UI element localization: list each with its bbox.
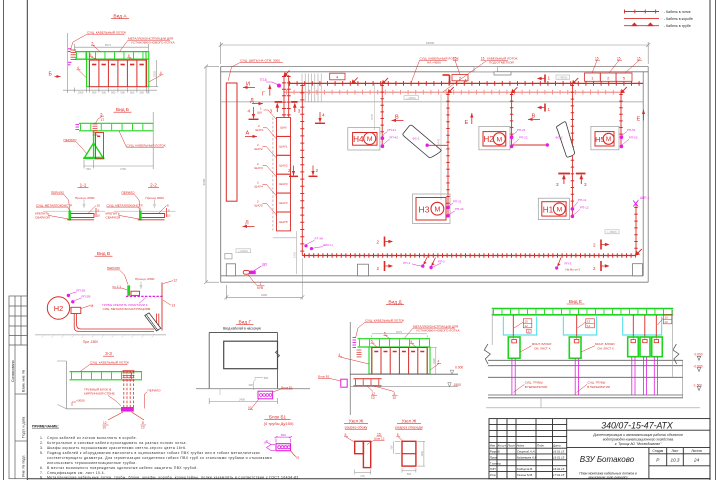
svg-text:ШАУ1: ШАУ1 — [279, 144, 288, 148]
15 flags — [453, 56, 641, 60]
flags 4 — [77, 66, 162, 75]
svg-text:3: 3 — [270, 109, 273, 114]
svg-text:900: 900 — [130, 91, 135, 95]
svg-text:ПЕРИЛО: ПЕРИЛО — [64, 138, 78, 142]
svg-text:ПЕРИЛО: ПЕРИЛО — [107, 266, 121, 270]
magenta taps at motors — [381, 135, 624, 218]
svg-text:М: М — [557, 207, 563, 214]
svg-text:5: 5 — [101, 112, 103, 116]
labels mont bloki — [532, 342, 615, 351]
svg-text:4: 4 — [322, 113, 325, 118]
section cut 3 top-left — [275, 101, 298, 103]
pipe labels — [525, 381, 610, 389]
svg-text:4: 4 — [77, 66, 79, 70]
wall top outer — [221, 66, 649, 68]
svg-text:Проход -0500: Проход -0500 — [75, 196, 95, 200]
svg-text:+0000: +0000 — [76, 398, 85, 402]
svg-text:16.01.15: 16.01.15 — [553, 450, 565, 454]
cyan niche 1 — [503, 317, 536, 336]
svg-text:СУЩ. МЕТАЛЛОКОНСТР.: СУЩ. МЕТАЛЛОКОНСТР. — [36, 203, 73, 207]
right dim — [167, 204, 171, 218]
svg-text:РП-31: РП-31 — [453, 200, 462, 204]
svg-text:ШАУ2: ШАУ2 — [255, 147, 264, 151]
motor H3 — [413, 194, 451, 224]
svg-text:ШАУ1: ШАУ1 — [256, 128, 265, 132]
-1500 level — [350, 386, 458, 388]
wall outline with break — [209, 333, 279, 389]
lower small tray — [354, 379, 382, 386]
svg-text:- Кабель в лотке: - Кабель в лотке — [664, 10, 691, 14]
svg-text:Блок Б1: Блок Б1 — [281, 385, 293, 389]
svg-text:4: 4 — [438, 360, 440, 364]
green pump box 1 — [508, 337, 520, 358]
svg-text:Т.контр.: Т.контр. — [490, 461, 502, 465]
pipe duct down from pump — [74, 314, 159, 332]
existing panel (tall red rect) — [226, 83, 237, 201]
cable hashes at post — [93, 124, 98, 135]
staircase treads — [302, 74, 321, 102]
15/12 flags group2 — [587, 320, 591, 329]
svg-text:ПРИМЕЧАНИЕ:: ПРИМЕЧАНИЕ: — [32, 425, 59, 429]
pilaster bottom left — [226, 264, 235, 276]
svg-text:ШАУ-Н: ШАУ-Н — [323, 243, 333, 247]
label existing tray +4500 — [411, 57, 459, 83]
svg-text:Г: Г — [262, 92, 265, 98]
red hash at tray crossing — [123, 371, 135, 381]
svg-text:РП-2: РП-2 — [438, 260, 445, 264]
svg-text:900: 900 — [92, 91, 97, 95]
svg-text:Спуск кабелей из лотков выполн: Спуск кабелей из лотков выполнять в коро… — [47, 436, 137, 440]
green ladder tray — [70, 372, 143, 380]
green ladder tray — [358, 339, 431, 347]
motor H1 — [538, 198, 569, 219]
svg-text:ТП-8: ТП-8 — [260, 78, 267, 82]
small dim — [254, 378, 264, 391]
bottom cable tray — [302, 255, 636, 257]
svg-text:2400: 2400 — [239, 397, 245, 401]
svg-text:2: 2 — [316, 168, 319, 173]
svg-text:РП-2В: РП-2В — [82, 294, 91, 298]
svg-text:24: 24 — [693, 458, 700, 463]
arrow 2 down right — [309, 166, 319, 177]
block B1 magenta at wall — [341, 379, 347, 387]
svg-text:3-3: 3-3 — [105, 351, 112, 356]
svg-text:15: 15 — [481, 56, 485, 60]
svg-text:1.: 1. — [40, 436, 44, 440]
extension lines — [63, 33, 158, 93]
legend cable in box symbol — [624, 18, 659, 20]
svg-text:водопроводно-канализационного: водопроводно-канализационного хозяйства — [603, 438, 674, 442]
wall bottom outer — [221, 281, 649, 283]
elevation labels gray boxes — [236, 75, 619, 253]
svg-text:2: 2 — [593, 243, 596, 248]
AVR-1 — [633, 196, 649, 207]
svg-text:10: 10 — [167, 214, 171, 218]
flags 5 — [90, 41, 130, 58]
stage table — [652, 449, 702, 453]
svg-text:Контрольные и силовые кабели п: Контрольные и силовые кабели прокладыват… — [47, 441, 187, 445]
svg-text:В ПЕРЕКРЫТИИ: В ПЕРЕКРЫТИИ — [525, 385, 548, 389]
green ladder tray — [492, 309, 674, 315]
svg-text:М: М — [434, 207, 440, 214]
leaders to fraction labels — [367, 386, 394, 392]
svg-text:Металлические кабельные лотки,: Металлические кабельные лотки, трубы, бл… — [47, 476, 300, 480]
RP-1 RP-2 taps — [403, 257, 445, 270]
riser to H3 — [447, 92, 449, 216]
break marks — [484, 344, 490, 364]
svg-text:Взам. инв. №: Взам. инв. № — [21, 370, 25, 392]
svg-text:КУВ: КУВ — [257, 286, 263, 290]
cabinet row — [372, 348, 427, 375]
svg-text:5: 5 — [371, 339, 373, 343]
legend cable in tray symbol — [624, 11, 659, 13]
svg-text:16.01.15: 16.01.15 — [553, 455, 565, 459]
svg-text:соответствующего диаметра. Для: соответствующего диаметра. Для герметиза… — [47, 456, 272, 460]
svg-text:РП-22: РП-22 — [519, 136, 528, 140]
svg-text:Проход 0000: Проход 0000 — [146, 196, 165, 200]
svg-text:Е: Е — [465, 120, 469, 126]
svg-text:(4 трубы Ду150): (4 трубы Ду150) — [264, 421, 294, 426]
green ladder tray — [79, 123, 153, 131]
svg-text:Д: Д — [250, 98, 254, 104]
svg-text:(-0200): (-0200) — [239, 249, 248, 253]
svg-text:5: 5 — [128, 54, 130, 58]
elevation lines — [488, 360, 683, 398]
red drop lines — [513, 315, 656, 339]
svg-text:(-1500): (-1500) — [607, 230, 616, 234]
svg-text:Проход -0500: Проход -0500 — [135, 277, 155, 281]
svg-text:700: 700 — [390, 445, 394, 450]
svg-text:РП-52: РП-52 — [629, 136, 638, 140]
cabinet column dashed line — [272, 118, 274, 232]
block B1 with 4 pipes — [258, 391, 273, 399]
svg-text:В местах возможного повреждени: В местах возможного повреждения одиночны… — [47, 466, 198, 470]
svg-text:РП-12: РП-12 — [580, 206, 589, 210]
svg-text:ШАУ2: ШАУ2 — [279, 163, 288, 167]
magenta dashed pipe run — [126, 295, 164, 297]
svg-text:М: М — [496, 137, 502, 144]
motor H4 — [348, 128, 380, 150]
svg-text:900: 900 — [111, 91, 116, 95]
red box on stand — [96, 133, 104, 159]
section cut 2 left pair — [384, 237, 386, 272]
wall right inner — [642, 72, 644, 276]
svg-text:УСТАНОВКИ НОВОГО ЛОТКА: УСТАНОВКИ НОВОГО ЛОТКА — [416, 329, 460, 333]
svg-text:РП-21: РП-21 — [517, 128, 526, 132]
svg-text:1100: 1100 — [420, 450, 424, 456]
svg-text:Н2: Н2 — [483, 135, 494, 144]
svg-text:Стадия: Стадия — [652, 449, 663, 453]
green post left — [369, 347, 372, 374]
svg-text:4: 4 — [248, 109, 251, 114]
dims — [394, 441, 425, 472]
tray section tag 2 — [452, 75, 468, 81]
FS-1 diagonal bar — [403, 125, 448, 158]
dim below plan — [224, 258, 304, 300]
arrow 2 down left — [288, 166, 298, 177]
right dim — [429, 348, 437, 375]
svg-text:2: 2 — [593, 266, 596, 271]
svg-text:3460: 3460 — [261, 293, 268, 297]
svg-text:3: 3 — [556, 182, 559, 187]
svg-text:Пров.: Пров. — [490, 455, 498, 459]
riser to H4 — [381, 83, 383, 146]
svg-text:СУЩ. МЕТАЛЛОКОНСТРУКЦИЯМ: СУЩ. МЕТАЛЛОКОНСТРУКЦИЯМ — [103, 307, 151, 311]
section cut 1 upper — [544, 75, 546, 112]
opening rect — [224, 341, 278, 369]
view arrow V right — [528, 114, 540, 122]
svg-text:Н4: Н4 — [353, 135, 364, 144]
svg-text:0.000: 0.000 — [695, 352, 703, 356]
svg-text:-1500: -1500 — [453, 383, 462, 387]
svg-text:- Кабель в трубе: - Кабель в трубе — [664, 24, 691, 28]
cabinet leader labels — [255, 106, 265, 207]
svg-text:КИРПИЧНОЙ СТЕНЕ: КИРПИЧНОЙ СТЕНЕ — [84, 392, 115, 396]
svg-text:5: 5 — [397, 433, 399, 437]
svg-text:Подп.: Подп. — [537, 444, 545, 448]
riser to H1 — [571, 83, 573, 216]
svg-text:РП-11: РП-11 — [578, 198, 587, 202]
svg-text:СУЩ. КАБЕЛЬНЫЙ ЛОТОК: СУЩ. КАБЕЛЬНЫЙ ЛОТОК — [90, 361, 129, 365]
svg-text:15: 15 — [665, 316, 669, 320]
svg-text:18000: 18000 — [426, 41, 435, 45]
svg-text:1: 1 — [548, 107, 551, 112]
svg-text:5: 5 — [92, 41, 94, 45]
svg-text:ПОД ОТМЕТКОЙ: ПОД ОТМЕТКОЙ — [489, 60, 514, 64]
magenta dims — [267, 436, 293, 450]
magenta entry marks — [68, 49, 72, 65]
svg-text:(-4500): (-4500) — [407, 96, 416, 100]
right dim — [97, 204, 101, 218]
door light panel — [243, 262, 267, 290]
15/12 flags group1 — [525, 320, 529, 329]
svg-text:При -1500: При -1500 — [83, 340, 98, 344]
magenta entry marks — [353, 338, 357, 348]
floor line — [43, 210, 105, 212]
cabinet handles — [374, 351, 424, 353]
svg-text:РП-32: РП-32 — [455, 207, 464, 211]
green stand post — [93, 131, 95, 158]
svg-text:Кол.уч: Кол.уч — [498, 444, 507, 448]
svg-text:2: 2 — [377, 240, 380, 245]
svg-text:разрез спереди: разрез спереди — [395, 426, 422, 430]
svg-text:Утв.: Утв. — [490, 473, 497, 477]
right green post — [146, 52, 149, 87]
green ladder tray — [75, 52, 149, 60]
svg-text:ФС-1: ФС-1 — [413, 136, 420, 140]
svg-text:РП-51: РП-51 — [627, 128, 636, 132]
svg-text:ПЕРИЛО: ПЕРИЛО — [51, 190, 65, 194]
svg-text:На Мо-сн 3: На Мо-сн 3 — [566, 268, 581, 272]
svg-text:500: 500 — [407, 472, 412, 476]
floor hatch — [35, 334, 166, 336]
svg-text:Е: Е — [637, 117, 641, 123]
svg-text:СМ. ЛИСТ X: СМ. ЛИСТ X — [534, 347, 551, 351]
svg-text:ВЗУ Ботаково: ВЗУ Ботаково — [580, 455, 635, 464]
long left riser — [301, 83, 303, 255]
svg-text:1300: 1300 — [78, 91, 84, 95]
left margin stamp boxes — [9, 296, 27, 479]
label metal structures — [120, 36, 176, 51]
arrow 4 left — [248, 107, 259, 119]
magenta wall block — [121, 407, 134, 412]
bottom dim — [355, 470, 371, 475]
svg-text:900: 900 — [102, 91, 107, 95]
right elevation labels — [693, 352, 703, 387]
legend top right — [624, 10, 693, 28]
svg-text:12: 12 — [665, 320, 669, 324]
svg-text:СМ. ЛИСТ X: СМ. ЛИСТ X — [597, 347, 614, 351]
tray section tags 1 2 5 — [585, 73, 601, 81]
svg-text:0.000: 0.000 — [455, 366, 463, 370]
left dimension line — [204, 65, 219, 285]
svg-text:2325: 2325 — [432, 358, 436, 364]
svg-text:ШАУ3: ШАУ3 — [279, 182, 288, 186]
svg-text:1: 1 — [548, 76, 551, 81]
wall riser red line — [161, 283, 163, 331]
wall left — [220, 67, 222, 283]
riser to H5 — [620, 92, 622, 146]
svg-text:5: 5 — [411, 340, 413, 344]
view arrow V left — [392, 115, 404, 123]
svg-text:- Кабель в коробе: - Кабель в коробе — [664, 17, 693, 21]
svg-text:3: 3 — [298, 109, 301, 114]
green stand triangle — [85, 143, 104, 158]
cable entry hashes — [71, 50, 77, 60]
svg-text:(-4500): (-4500) — [558, 75, 567, 79]
svg-text:МОНТ. БЛОКИ: МОНТ. БЛОКИ — [532, 342, 552, 346]
wall niche left — [225, 254, 232, 259]
svg-text:В ПЕРЕКРЫТИИ: В ПЕРЕКРЫТИИ — [587, 385, 610, 389]
svg-text:12: 12 — [525, 324, 529, 328]
svg-text:г. Троицк АО "Мосводоканал": г. Троицк АО "Мосводоканал" — [615, 442, 662, 446]
svg-text:8.: 8. — [40, 476, 44, 480]
svg-text:М: М — [367, 136, 373, 143]
svg-text:5: 5 — [90, 53, 92, 57]
svg-text:ШАУ5: ШАУ5 — [279, 220, 288, 224]
TP-8 tap — [260, 78, 282, 88]
svg-text:СУЩ. КАБЕЛЬНЫЙ ЛОТОК: СУЩ. КАБЕЛЬНЫЙ ЛОТОК — [365, 318, 404, 322]
red shelf — [138, 213, 165, 220]
svg-text:6.: 6. — [40, 466, 44, 470]
svg-text:СУЩ. ТРУБЫ: СУЩ. ТРУБЫ — [587, 381, 606, 385]
svg-text:3: 3 — [584, 182, 587, 187]
svg-text:10: 10 — [97, 214, 101, 218]
ground line — [196, 388, 310, 390]
svg-text:Блок Б1: Блок Б1 — [318, 375, 330, 379]
floor line — [114, 210, 176, 212]
svg-text:Листов: Листов — [691, 449, 702, 453]
label tray below mark — [443, 57, 518, 92]
cabinet row — [89, 60, 146, 87]
left margin rotated labels — [11, 360, 25, 477]
svg-text:2325: 2325 — [153, 70, 157, 77]
window tab — [494, 72, 511, 75]
upper cable tray (dark red, in tray) — [289, 82, 643, 84]
magenta taps at bottom tray — [304, 237, 332, 251]
svg-text:СВАРКОЙ: СВАРКОЙ — [35, 216, 50, 220]
svg-text:500: 500 — [86, 167, 91, 171]
svg-text:РП-2Б: РП-2Б — [77, 288, 86, 292]
svg-text:по 1-1: по 1-1 — [113, 284, 122, 288]
green post right — [427, 347, 430, 374]
svg-text:15: 15 — [525, 320, 529, 324]
svg-text:5271: 5271 — [105, 43, 112, 47]
svg-text:РП-1: РП-1 — [403, 261, 410, 265]
svg-text:15: 15 — [637, 56, 641, 60]
svg-text:Подп. и дата: Подп. и дата — [21, 417, 25, 438]
svg-text:600: 600 — [281, 433, 286, 437]
svg-text:12: 12 — [587, 324, 591, 328]
label existing panels — [228, 59, 283, 81]
svg-text:2-2: 2-2 — [150, 183, 157, 188]
svg-text:Лист: Лист — [507, 444, 516, 448]
red box at bracket — [131, 291, 140, 295]
svg-text:10: 10 — [141, 425, 145, 429]
left green post — [87, 52, 90, 87]
RP taps on pump — [67, 294, 70, 297]
dim near cabinets — [296, 231, 298, 274]
pump H2 circle — [47, 297, 69, 319]
svg-text:17.01.15: 17.01.15 — [553, 473, 565, 477]
svg-text:2: 2 — [288, 168, 291, 173]
tray end vertical — [672, 310, 674, 377]
label existing tray — [71, 30, 127, 49]
svg-text:СУЩ. ЩИТЫ НА ОТМ. 5000: СУЩ. ЩИТЫ НА ОТМ. 5000 — [240, 59, 280, 63]
svg-text:НА +4500: НА +4500 — [427, 60, 441, 64]
svg-text:4: 4 — [160, 71, 162, 75]
svg-text:Подвод кабелей к оборудованию: Подвод кабелей к оборудованию выполнять … — [47, 451, 260, 455]
wall line — [349, 322, 351, 415]
magenta entry marks — [76, 125, 80, 130]
shape — [402, 441, 416, 466]
svg-text:Галкин М.В.: Галкин М.В. — [517, 473, 533, 477]
svg-text:10: 10 — [371, 396, 375, 400]
svg-text:использовать термокомпенсацион: использовать термокомпенсационные трубки… — [47, 461, 137, 465]
svg-text:РП-42: РП-42 — [390, 136, 399, 140]
view arrow A — [245, 131, 257, 138]
svg-text:машинном зале (начало): машинном зале (начало) — [588, 476, 627, 480]
svg-text:12: 12 — [174, 279, 178, 283]
svg-text:Инв. № подл.: Инв. № подл. — [21, 455, 25, 477]
svg-text:Н2: Н2 — [54, 304, 63, 313]
svg-text:СУЩ. КАБЕЛЬНЫЙ ЛОТОК: СУЩ. КАБЕЛЬНЫЙ ЛОТОК — [127, 143, 166, 147]
svg-text:5.: 5. — [40, 451, 44, 455]
magenta pipes — [512, 357, 658, 395]
red cable hashes — [357, 350, 362, 357]
svg-text:ПЕРИЛО: ПЕРИЛО — [122, 190, 136, 194]
cyan niche 3 — [623, 317, 662, 336]
motor H2 — [479, 126, 510, 149]
svg-text:Н1: Н1 — [543, 205, 554, 214]
view arrow I — [243, 82, 255, 90]
leader crosses below — [108, 412, 144, 420]
right dim vertical — [682, 360, 684, 398]
arrow 4 right — [315, 112, 325, 123]
svg-text:02: 02 — [296, 455, 300, 459]
svg-text:А: А — [246, 131, 250, 137]
svg-text:Диспетчеризация и автоматизаци: Диспетчеризация и автоматизация работы о… — [592, 433, 683, 437]
svg-text:3.: 3. — [40, 446, 44, 450]
svg-text:900: 900 — [121, 91, 126, 95]
svg-text:МОНТ. БЛОКИ: МОНТ. БЛОКИ — [595, 342, 615, 346]
svg-text:Лист: Лист — [672, 449, 679, 453]
svg-text:(70): (70) — [360, 474, 365, 478]
wall bottom inner — [221, 275, 644, 277]
svg-text:15: 15 — [617, 56, 621, 60]
green bracket on wall — [127, 285, 130, 296]
dim verticals inside plan — [373, 84, 375, 130]
